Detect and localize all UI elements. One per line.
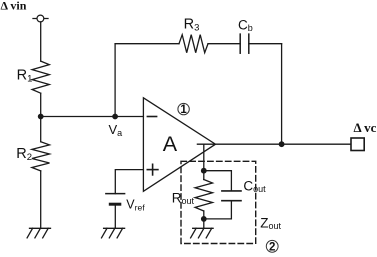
svg-text:Va: Va <box>109 122 123 138</box>
node Va (junction) <box>112 114 118 120</box>
wire Cb to feedback corner <box>249 43 282 45</box>
resistor R2 <box>32 142 50 171</box>
wire top junction to Cout <box>204 171 232 191</box>
marker 2 (circled) <box>266 240 278 253</box>
capacitor Cout <box>222 191 241 201</box>
node output junction <box>279 141 285 147</box>
input terminal (circle) <box>33 15 48 22</box>
wire output tap down to Zout <box>203 144 205 171</box>
svg-text:Vref: Vref <box>126 198 145 213</box>
wire op-amp plus input <box>115 170 143 194</box>
capacitor Cb <box>240 34 249 53</box>
wire feedback down to output <box>281 44 283 145</box>
node Zout top junction <box>201 168 207 174</box>
wire bottom junction to ground <box>203 219 205 228</box>
wire Cout to bottom junction <box>204 201 232 219</box>
output terminal (square) <box>351 138 364 151</box>
op-amp U1 (A) <box>143 98 215 192</box>
dashed box Zout <box>181 161 256 243</box>
wire op-amp output <box>197 143 351 145</box>
svg-text:R1: R1 <box>17 68 33 85</box>
resistor R1 <box>32 61 49 93</box>
svg-text:Cb: Cb <box>238 18 253 34</box>
wire R2 to ground <box>40 171 42 228</box>
svg-text:A: A <box>163 132 178 156</box>
op-amp plus sign <box>147 164 158 175</box>
svg-text:Rout: Rout <box>172 190 195 206</box>
svg-text:Cout: Cout <box>243 178 266 194</box>
wire R3 to Cb <box>208 43 240 45</box>
wire Va node up to feedback <box>114 44 116 117</box>
svg-text:R3: R3 <box>184 17 200 34</box>
svg-text:R2: R2 <box>16 146 32 163</box>
ground (below Vref) <box>102 228 125 238</box>
svg-text:Δ vc: Δ vc <box>354 120 377 135</box>
resistor R3 <box>179 35 208 53</box>
wire battery to ground <box>114 204 116 228</box>
node Zout bottom junction <box>201 216 207 222</box>
wire junction to Rout <box>203 171 205 180</box>
battery Vref bottom plate <box>110 203 120 206</box>
marker 1 (circled) <box>178 103 189 116</box>
wire node A to R2 <box>40 117 42 142</box>
svg-text:1: 1 <box>180 104 187 116</box>
wire Rout to bottom junction <box>203 211 205 219</box>
svg-text:Δ vin: Δ vin <box>1 0 27 13</box>
ground (below R2) <box>27 228 50 238</box>
battery Vref top plate <box>106 193 125 195</box>
wire R1 to node A <box>40 93 42 116</box>
op-amp minus sign <box>147 116 156 118</box>
ground (Zout) <box>191 228 214 238</box>
svg-text:2: 2 <box>269 242 275 254</box>
wire terminal to R1 <box>40 22 42 61</box>
wire node A to op-amp inverting input <box>41 116 144 118</box>
resistor Rout <box>195 180 212 212</box>
node A (junction R1/R2) <box>38 114 44 120</box>
wire feedback top left segment <box>115 43 179 45</box>
svg-text:Zout: Zout <box>260 215 281 231</box>
